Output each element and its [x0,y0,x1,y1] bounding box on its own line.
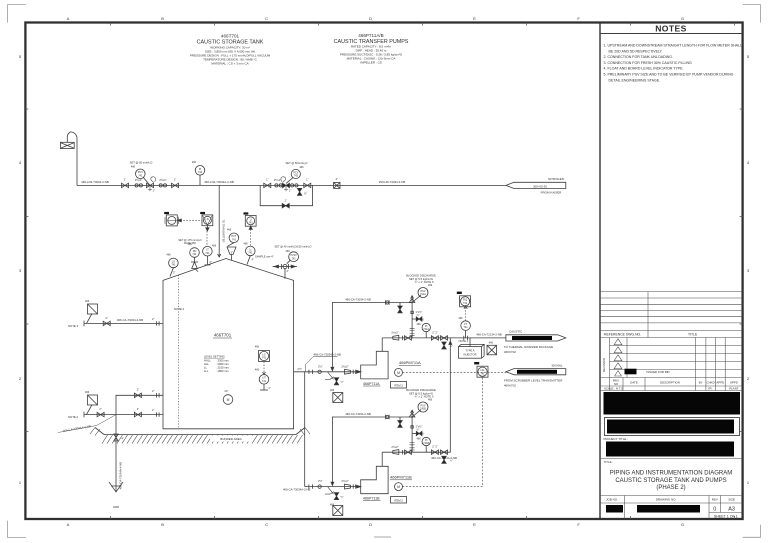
svg-text:466-CA-72134-2-NB: 466-CA-72134-2-NB [476,332,502,336]
reducer flange right [291,184,294,187]
suction branch tee down to pump B [304,372,306,487]
PCV-742 group with bypass [260,161,312,208]
strainer blowdown interlock square A [333,393,343,403]
item box pump B [391,497,407,504]
injector connection stub [469,338,471,347]
PSV-741B [409,410,421,419]
svg-text:SAMPLE use 4": SAMPLE use 4" [255,255,274,259]
float gauge dotted line [178,275,180,429]
vent flame arrester at apex [227,247,236,260]
strainer blowdown interlock square B [333,506,343,516]
valve V2 1" [172,178,179,188]
svg-text:M: M [397,371,400,375]
svg-text:NOTE 3: NOTE 3 [68,324,79,328]
svg-text:FROM KAISER: FROM KAISER [541,190,563,194]
svg-text:741: 741 [463,302,468,305]
dashed to LT [206,231,208,245]
svg-text:1. UPSTREAM AND DOWNSTREAM STR: 1. UPSTREAM AND DOWNSTREAM STRAIGHT LENG… [604,44,743,48]
reducer discharge A [393,335,399,340]
svg-text:466P711B: 466P711B [363,497,380,501]
vent stub valve NC on riser B [412,433,422,435]
svg-text:IMPELLER : CS: IMPELLER : CS [360,61,382,65]
svg-text:JOB NO.: JOB NO. [606,498,618,502]
svg-text:466T701: 466T701 [214,333,232,338]
border grid letters top [67,16,684,21]
svg-text:3. CONNECTION FOR FRESH 30% CA: 3. CONNECTION FOR FRESH 30% CAUSTIC FILL… [604,61,693,65]
svg-text:2": 2" [336,177,338,181]
bottom info table [600,496,743,520]
svg-text:M: M [227,398,230,402]
svg-text:2": 2" [137,407,139,411]
interlock square beside injector [487,345,497,355]
svg-text:466: 466 [459,317,464,320]
LAH/LAL shared square [166,215,177,226]
orifice flanges FE [464,336,468,340]
valve V3 1" [264,183,271,187]
svg-text:466-CA-7213A-2-NB: 466-CA-7213A-2-NB [431,456,457,460]
svg-text:GRD: GRD [113,505,119,509]
FT-741 [465,331,467,338]
svg-text:SCALE : N.T.S: SCALE : N.T.S [604,387,623,391]
LG-741 level gauge circle [169,258,179,268]
reducer flange 2.5x1 right [159,178,167,187]
svg-text:A: A [67,522,70,527]
reducer flange 2.5x1 [135,178,143,187]
svg-text:466-LN2-73034-2-NB: 466-LN2-73034-2-NB [81,180,109,184]
svg-text:PLANT: PLANT [729,387,739,391]
svg-text:742: 742 [294,175,299,178]
svg-text:TITLE: TITLE [688,333,698,337]
svg-text:1": 1" [174,178,176,182]
svg-text:466: 466 [428,399,433,402]
Y strainer A [325,372,334,380]
svg-text:466P711A: 466P711A [363,382,380,386]
svg-text:466: 466 [428,284,433,287]
svg-text:1": 1" [153,190,155,193]
PCV-742 valve NC [283,183,290,187]
svg-text:: 2100 mm: : 2100 mm [216,366,229,370]
svg-text:466PM711B: 466PM711B [390,475,412,480]
valve V1 1" [122,178,129,188]
svg-text:2" 2": 2" 2" [432,330,438,334]
svg-text:466: 466 [212,244,217,247]
svg-text:466: 466 [244,243,249,246]
svg-text:743: 743 [198,171,203,174]
svg-text:¾" x 1" NOTE 5: ¾" x 1" NOTE 5 [415,280,434,284]
tank inlet branch lower [116,414,163,416]
svg-text:2. CONNECTION FOR TANK UNLOADI: 2. CONNECTION FOR TANK UNLOADING. [604,55,673,59]
svg-text:¾": ¾" [417,314,420,317]
svg-text:D: D [369,522,372,527]
svg-text:466: 466 [489,341,494,344]
corner trim mark top-left [8,5,27,23]
svg-text:NOTE 2: NOTE 2 [68,415,79,419]
flange pair suction A [309,370,313,374]
notes text [604,44,743,83]
svg-text:4. FLOAT AND BOARD LEVEL INDIC: 4. FLOAT AND BOARD LEVEL INDICATOR TYPE. [604,67,684,71]
svg-text:466-CA-73034-2-NB: 466-CA-73034-2-NB [345,298,371,302]
svg-text:2" 2": 2" 2" [432,445,438,449]
svg-text:250-HD-73034-2-NB: 250-HD-73034-2-NB [379,180,406,184]
svg-text:2½x2": 2½x2" [341,479,348,483]
svg-text:SET @ 40 mmH₂O/150 mmH₂O: SET @ 40 mmH₂O/150 mmH₂O [275,245,312,249]
tank inlet branch upper [116,395,163,414]
NOTES title bar [600,33,743,35]
interlock square NOTE3 [87,314,93,324]
spool flanges riser B [410,443,415,450]
LT-741 level transmitter [203,246,213,256]
spec break symbol 2" [334,177,340,188]
svg-text:2": 2" [99,407,101,411]
svg-text:FROM SCRUBBER LEVEL TRANSMITTE: FROM SCRUBBER LEVEL TRANSMITTER [504,379,563,383]
svg-text:466: 466 [131,166,136,169]
redacted company block 1 [604,392,741,415]
bunded area label [210,436,252,442]
svg-text:741: 741 [262,357,267,360]
svg-text:(PHASE 2): (PHASE 2) [656,485,685,491]
svg-text:½": ½" [341,380,344,384]
drawing title [604,460,733,491]
dashed from LI circle up [250,226,252,245]
svg-text:APPD: APPD [730,381,738,385]
bypass loop [260,185,312,205]
svg-text:TYPE A: TYPE A [465,348,474,352]
PVSV-742 small relief [190,248,200,258]
off-page connector FROM KAISER [506,177,566,194]
svg-text:G: G [681,522,684,527]
svg-text:B: B [161,522,164,527]
reducer suction B [345,484,351,489]
svg-text:466X702: 466X702 [504,350,516,354]
border grid numbers right [747,54,750,485]
svg-text:466: 466 [255,369,260,372]
svg-text:SET @ 50 mmH₂O: SET @ 50 mmH₂O [130,161,153,165]
signal dashed arrow to LAH [177,219,202,221]
motor M pump A [395,368,403,376]
svg-text:B: B [161,16,164,21]
svg-text:741: 741 [292,257,297,260]
drain valve [114,434,118,441]
svg-text:5. PRELIMINARY PSV SIZE AND TO: 5. PRELIMINARY PSV SIZE AND TO BE VERIFI… [604,73,734,77]
PSV B relief return line [332,417,412,483]
valve on filling line [103,321,110,325]
flange at tank nozzle [157,321,160,325]
svg-text:ITEM 2: ITEM 2 [394,383,403,387]
drain valve NC on relief line A [398,303,402,313]
discharge valves A [431,336,438,340]
PSV-741A [409,295,421,304]
svg-text:2½": 2½" [298,367,303,371]
svg-text:741: 741 [232,238,237,241]
border grid letters bottom [67,522,684,527]
signal connector flag [506,369,566,375]
svg-text:M: M [397,485,400,489]
PSV A relief return line [332,303,412,369]
svg-text:INJECTOR: INJECTOR [464,353,477,357]
mixer M [223,395,233,405]
note 3 filling connection [84,322,163,324]
svg-text:LEVEL SETTING: LEVEL SETTING [204,355,225,359]
svg-text:466T701: 466T701 [221,34,240,39]
relief orifice A [386,300,390,304]
project title label [604,437,629,441]
svg-text:466-CA-73034-2-NB: 466-CA-73034-2-NB [117,318,143,322]
svg-text:466: 466 [417,323,422,326]
svg-text:2½x2": 2½x2" [391,331,398,335]
svg-text:SIGNAL: SIGNAL [551,364,562,368]
PSV riser B [411,417,413,452]
drain valve NC below [297,188,301,195]
svg-text:0: 0 [713,507,716,513]
tank shell [163,259,294,429]
drain valve after discharge valves B [442,456,446,463]
svg-text:CAUSTIC: CAUSTIC [509,330,523,334]
valve on unloading line [97,412,104,416]
fold mark bottom-center [374,536,391,538]
svg-text:TITLE :: TITLE : [604,460,614,464]
svg-text:NOTE 1: NOTE 1 [459,339,469,343]
svg-text:2": 2" [152,389,154,393]
valve tank inlet upper [134,393,141,397]
svg-text:YR.: YR. [708,387,713,391]
svg-text:466-CA-73034A-2-NB: 466-CA-73034A-2-NB [283,488,310,492]
svg-text:741A: 741A [423,328,429,331]
svg-text:2": 2" [210,260,212,264]
signal up to FIQ [465,306,467,321]
svg-text:466: 466 [255,346,260,349]
svg-text:CAUSTIC STORAGE TANK AND PUMPS: CAUSTIC STORAGE TANK AND PUMPS [615,478,726,484]
svg-text:LIC: LIC [206,218,210,221]
svg-text:REVISION: REVISION [602,358,606,372]
svg-text:2": 2" [152,317,154,321]
svg-text:2": 2" [269,386,271,390]
svg-text:PIPING AND INSTRUMENTATION DIA: PIPING AND INSTRUMENTATION DIAGRAM [610,471,732,477]
to transmitter line from header [218,185,220,255]
strainer drain valve B [334,493,338,500]
svg-text:2½x1": 2½x1" [159,178,166,182]
drawing no black chip [637,505,700,513]
reducer suction A [345,369,351,374]
flange into pump A [353,370,356,374]
svg-text:2": 2" [137,388,139,392]
reducer flange [275,184,278,187]
svg-text:466-LN2-73034A-2-NB: 466-LN2-73034A-2-NB [204,180,234,184]
svg-text:741: 741 [262,380,267,383]
FIQ square [460,296,471,307]
svg-text:BUNDED AREA: BUNDED AREA [220,437,242,441]
svg-text:HLL: HLL [204,362,209,366]
reducer discharge B [393,450,399,455]
motor M pump B [395,483,403,491]
discharge riser A [381,338,383,351]
drain valve after discharge valves [442,342,446,349]
svg-text:300-NO-30: 300-NO-30 [533,184,547,188]
vent stub valve NC on riser A [412,318,422,320]
svg-text:C: C [265,16,268,21]
LIC square [202,215,213,226]
level setting table [204,355,229,374]
svg-text:SHEET 1 OF 1: SHEET 1 OF 1 [714,515,738,519]
svg-text:741: 741 [192,253,197,256]
svg-text:741: 741 [171,264,176,267]
svg-text:466PM711A: 466PM711A [399,360,421,365]
svg-text:A: A [67,16,70,21]
redacted company block 2 [605,418,740,436]
svg-text:741B: 741B [423,442,429,445]
vent gooseneck [67,132,77,186]
svg-text:NITROGEN: NITROGEN [548,177,564,181]
svg-text:466: 466 [85,391,90,394]
border grid numbers left [19,54,22,485]
dashed signal drop to pump B [403,378,483,487]
note 2 unloading connection [84,412,116,418]
svg-text:466-CA-73034A-2-NB: 466-CA-73034A-2-NB [314,352,341,356]
svg-text:2½": 2½" [318,364,323,368]
svg-text:4": 4" [287,270,289,273]
svg-text:466: 466 [167,253,172,256]
svg-text:PROJECT TITLE :: PROJECT TITLE : [604,437,629,441]
svg-text:2½": 2½" [318,479,323,483]
svg-text:466-CA-73034-2-NB: 466-CA-73034-2-NB [345,412,371,416]
svg-text:4": 4" [252,258,254,262]
svg-text:1": 1" [284,198,286,202]
svg-text:: 1800 mm: : 1800 mm [216,369,229,373]
svg-text:½": ½" [341,495,344,499]
arrow down from LIC [206,226,208,229]
svg-text:APPD: APPD [716,381,724,385]
svg-text:24": 24" [225,389,229,393]
PI-741B [425,446,427,452]
svg-text:2½x2": 2½x2" [341,364,348,368]
right column divider [599,23,601,520]
svg-text:½": ½" [304,192,307,196]
discharge header A [382,337,506,339]
discharge valves B [431,450,438,454]
valve tank inlet lower [134,412,141,416]
svg-text:466: 466 [85,300,90,303]
svg-text:ISSUED FOR BID: ISSUED FOR BID [646,370,669,374]
svg-text:741: 741 [464,326,469,329]
svg-text:REV: REV [712,498,718,502]
svg-text:741: 741 [138,174,143,177]
svg-text:E: E [473,522,476,527]
issued for bid row black chip [625,369,637,375]
svg-text:741A: 741A [420,293,426,296]
svg-text:466: 466 [227,228,232,231]
svg-text:TO THERMAL OXIDIZER PACKAGE: TO THERMAL OXIDIZER PACKAGE [504,345,553,349]
svg-text:NOTE 4: NOTE 4 [174,307,185,311]
strainer drain valve A [334,378,338,385]
svg-text:LLL: LLL [204,369,209,373]
svg-text:466: 466 [420,433,425,436]
svg-text:NOTES: NOTES [655,24,687,34]
valve V4 1" [304,183,311,187]
svg-text:BE 20D AND 5D RESPECTIVELY.: BE 20D AND 5D RESPECTIVELY. [609,49,663,53]
svg-text:REFERENCE DWG.NO.: REFERENCE DWG.NO. [604,333,641,337]
drain valve NC on relief line B [398,417,402,427]
relief orifice B [386,415,390,419]
check valve B [405,450,412,454]
svg-text:DETAIL ENGINEERING STAGE.: DETAIL ENGINEERING STAGE. [609,78,661,82]
svg-text:741: 741 [205,252,210,255]
item box pump A [391,382,407,389]
svg-text:4": 4" [122,437,124,441]
interlock square NOTE2 [88,395,98,405]
svg-text:CHKD: CHKD [706,381,714,385]
svg-text:SIZE: SIZE [728,498,735,502]
PCV-741 self regulating valve [130,161,156,193]
svg-text:¾" x 1" NOTE 5: ¾" x 1" NOTE 5 [415,395,434,399]
wire main nitrogen header [77,184,506,186]
svg-text:HALL: HALL [204,359,211,363]
bypass valve NC 1" [282,204,289,208]
svg-text:2": 2" [152,408,154,412]
svg-text:TO TRANSMITTER: TO TRANSMITTER [222,220,226,243]
drain outfall arrow [109,482,123,492]
svg-text:466: 466 [286,250,291,253]
svg-text:C: C [265,522,268,527]
spool flanges riser A [410,328,415,335]
job no black chip [606,505,623,513]
svg-text:DESCRIPTION: DESCRIPTION [660,381,680,385]
svg-text:466: 466 [299,166,304,169]
flange circle suction B [318,485,321,488]
hatching left [102,435,303,444]
svg-text:466: 466 [330,504,335,507]
svg-text:466A702: 466A702 [504,384,516,388]
svg-text:E: E [473,16,476,21]
svg-text:G: G [681,16,684,21]
svg-text:2": 2" [106,316,108,320]
svg-text:D: D [369,16,372,21]
check valve A [405,336,412,340]
reference drawing table [600,292,743,338]
PSV riser A [411,303,413,338]
drain line down [115,415,117,478]
svg-text:DRAWING NO.: DRAWING NO. [656,498,677,502]
signal to LIT [263,362,265,374]
level transmitter square LG-741 [255,346,270,362]
svg-text:741B: 741B [420,408,426,411]
svg-text:: 2900 mm: : 2900 mm [216,362,229,366]
LI-741 float level indicator [246,246,256,256]
svg-text:1": 1" [306,178,308,182]
svg-text:DATE: DATE [630,381,638,385]
redacted project block [606,442,734,457]
LY interlock square on signal [477,366,488,377]
orifice nipple on riser A [411,311,413,313]
hatch bund end walls [90,428,310,436]
PIT-741 [229,233,239,243]
svg-text:466: 466 [330,389,335,392]
svg-text:1": 1" [266,178,268,182]
revision block [600,338,743,391]
type A injector box [459,347,482,359]
flange circle suction A [318,370,321,373]
svg-text:LL: LL [204,366,207,370]
svg-text:466: 466 [192,161,197,164]
corner trim mark top-right [743,5,761,23]
svg-text:741: 741 [248,252,253,255]
svg-text:741: 741 [249,222,254,225]
tank PVSV relief assembly [273,245,312,279]
flame arrester on vent [60,142,74,148]
svg-text:2": 2" [173,271,175,275]
svg-text:NO: NO [614,382,619,386]
off page connector to thermal oxidizer [506,335,566,341]
svg-text:SET @ 50mmH₂O: SET @ 50mmH₂O [286,161,308,165]
svg-text:A3: A3 [728,507,735,513]
